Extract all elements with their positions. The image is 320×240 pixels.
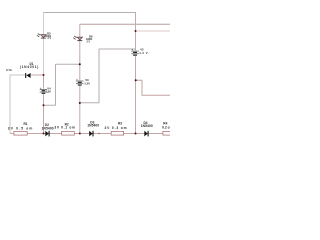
svg-text:0.2 o: 0.2 o [162, 125, 170, 129]
wire V2 tap horizontal [99, 48, 136, 50]
resistor R1 [8, 122, 33, 135]
svg-text:3V 0.1 om: 3V 0.1 om [54, 126, 75, 130]
node dot D1/V4 [43, 74, 45, 76]
battery V3 [76, 77, 90, 86]
node dot V2 bottom jog [135, 79, 137, 81]
wire D6 bypass L [44, 64, 56, 105]
LED D5 [37, 31, 52, 40]
wire right jog to edge [136, 80, 171, 95]
wire D1 to node [31, 74, 44, 76]
wire V2 tap L [80, 49, 99, 103]
resistor R3 [105, 122, 127, 135]
node dot V2 top tap [135, 30, 137, 32]
svg-text:2 V: 2 V [87, 40, 91, 43]
svg-text:1.2V: 1.2V [46, 89, 51, 93]
node dot V3 bottom tap [79, 102, 81, 104]
svg-text:1N5400: 1N5400 [87, 123, 99, 127]
svg-text:4.2 V: 4.2 V [139, 51, 148, 55]
node dot bottom rail x80 [79, 133, 81, 135]
svg-text:+: + [40, 86, 42, 90]
resistor R2 [54, 122, 75, 135]
svg-text:1N5400: 1N5400 [141, 124, 153, 128]
wire middle branch vertical [79, 24, 81, 133]
node dot bottom rail x43 [43, 133, 45, 135]
node dot V4 bottom [43, 104, 45, 106]
svg-text:0.7A: 0.7A [6, 68, 12, 72]
diode D4 [141, 121, 153, 137]
svg-text:(1N4001): (1N4001) [20, 65, 39, 69]
wire green return branch [10, 75, 26, 134]
wire D6 bypass horizontal [56, 63, 80, 65]
wire left branch vertical upper [43, 12, 45, 75]
resistor R4 [162, 122, 171, 135]
svg-text:2 V: 2 V [48, 37, 52, 40]
diode D1 [6, 62, 38, 78]
node dot bottom rail x99 [98, 133, 99, 134]
wire left branch vertical lower [43, 75, 45, 133]
battery V4 [40, 86, 51, 94]
battery V2 [131, 48, 148, 57]
wire bottom rail [10, 133, 170, 135]
svg-text:+: + [131, 48, 133, 52]
node dot bottom rail x135 [135, 133, 137, 135]
svg-text:R3: R3 [118, 122, 122, 126]
wire faint rail from V2 top node [136, 30, 171, 32]
node dot D6 branch top [79, 63, 81, 65]
wire second top rail [80, 23, 170, 25]
LED D6 [73, 34, 93, 43]
wire right branch vertical [135, 12, 137, 133]
svg-text:1N5400: 1N5400 [42, 126, 54, 130]
diode D3 [87, 121, 99, 137]
wire top rail [43, 12, 136, 14]
svg-text:3V 0.3 om: 3V 0.3 om [105, 126, 127, 130]
svg-text:3V 0.5 om: 3V 0.5 om [8, 127, 33, 131]
svg-text:+: + [76, 77, 78, 81]
diode D2 [42, 123, 54, 136]
svg-text:1.2V: 1.2V [84, 81, 90, 85]
svg-text:R1: R1 [24, 122, 28, 126]
